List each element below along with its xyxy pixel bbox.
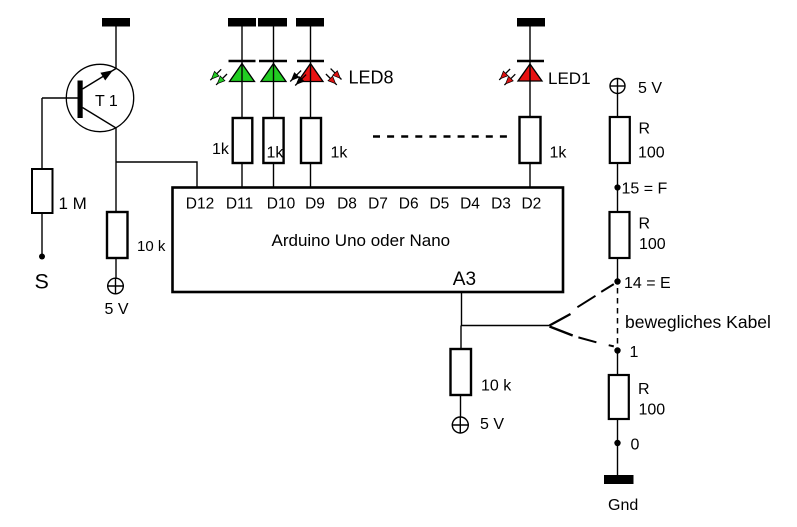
- svg-text:1k: 1k: [331, 145, 349, 162]
- wire base of T1: [42, 97, 78, 99]
- svg-text:D6: D6: [399, 196, 419, 213]
- light arrows LED D9 left (black): [290, 71, 306, 86]
- wire T1 collector to top ground: [115, 27, 117, 69]
- LED D2 (red, LED1): [517, 27, 544, 118]
- svg-text:5 V: 5 V: [480, 416, 504, 433]
- wire below 1M: [41, 213, 43, 254]
- wire branch to D12: [116, 162, 197, 188]
- resistor R 100 (bottom): [609, 375, 665, 419]
- svg-text:D11: D11: [226, 196, 253, 213]
- svg-text:D5: D5: [429, 196, 449, 213]
- ground bar above LED D9: [296, 18, 324, 27]
- wire T1 emitter down: [115, 128, 117, 212]
- resistor 1k (D11): [212, 118, 252, 163]
- LED D10 (green): [259, 27, 287, 119]
- LED D11 (green): [229, 27, 256, 119]
- svg-text:LED1: LED1: [548, 69, 591, 88]
- svg-text:D10: D10: [267, 196, 296, 213]
- dashed cable to node 14=E: [577, 284, 613, 307]
- svg-text:10 k: 10 k: [137, 238, 166, 255]
- wire base down to R 1M: [41, 98, 43, 169]
- light arrows LED D9 right (red): [326, 69, 342, 85]
- svg-text:1 M: 1 M: [59, 194, 87, 213]
- resistor R 100 (top): [610, 117, 665, 163]
- svg-text:100: 100: [639, 236, 666, 253]
- svg-text:100: 100: [638, 145, 665, 162]
- supply 5V left: [105, 278, 129, 319]
- light arrows LED D11: [210, 69, 227, 85]
- supply 5V middle: [452, 416, 505, 434]
- svg-text:R: R: [638, 381, 650, 398]
- resistor R 100 (middle): [610, 212, 666, 258]
- svg-text:R: R: [639, 216, 651, 233]
- ground bar above LED D11: [228, 18, 256, 27]
- svg-text:14 = E: 14 = E: [624, 275, 671, 292]
- svg-text:S: S: [35, 270, 49, 294]
- ground bar above LED D10: [258, 18, 287, 27]
- resistor 1k (D2): [520, 117, 568, 163]
- wire R1 to R2: [617, 163, 619, 212]
- svg-text:LED8: LED8: [349, 68, 394, 88]
- svg-text:R: R: [639, 121, 651, 138]
- ground bar above LED D2: [517, 18, 545, 27]
- wire 1k D10 to box: [273, 163, 275, 188]
- svg-text:A3: A3: [453, 269, 476, 290]
- wire 10k to 5V: [115, 258, 117, 279]
- svg-text:D12: D12: [186, 196, 214, 213]
- cable arrow head: [550, 314, 573, 336]
- svg-text:Gnd: Gnd: [608, 497, 638, 514]
- svg-text:10 k: 10 k: [481, 378, 512, 395]
- svg-text:100: 100: [639, 402, 666, 419]
- svg-text:1k: 1k: [267, 145, 285, 162]
- wire A3 down to 10k: [460, 326, 462, 350]
- svg-text:1k: 1k: [550, 145, 568, 162]
- wire 1k D2 to box: [529, 163, 531, 188]
- svg-text:1k: 1k: [212, 141, 230, 158]
- ground bar top left (above T1): [102, 18, 130, 27]
- LED D9 (red, LED8): [297, 27, 324, 119]
- svg-text:5 V: 5 V: [638, 80, 662, 97]
- svg-text:bewegliches Kabel: bewegliches Kabel: [625, 312, 771, 332]
- resistor 10k middle: [451, 349, 513, 395]
- wire A3 down: [461, 292, 463, 326]
- svg-text:0: 0: [631, 437, 640, 454]
- svg-text:1: 1: [630, 344, 639, 361]
- svg-text:15 = F: 15 = F: [622, 181, 668, 198]
- dashed cable to node 1: [578, 337, 613, 346]
- wire 5V to R1: [617, 94, 619, 118]
- wire 1k D11 to box: [241, 163, 243, 188]
- wire R3 to Gnd: [617, 419, 619, 475]
- wire 1k D9 to box: [310, 163, 312, 188]
- wire 10k to 5V middle: [460, 395, 462, 417]
- wire node 1 to R3: [617, 351, 619, 375]
- svg-text:D9: D9: [305, 196, 325, 213]
- wire R2 to node 14=E: [617, 258, 619, 282]
- dashed line between 1k resistors: [373, 135, 508, 137]
- node 1: [614, 347, 620, 353]
- svg-text:D4: D4: [460, 196, 480, 213]
- supply 5V right: [610, 78, 663, 97]
- resistor 1k (D9): [301, 118, 348, 163]
- node S dot: [39, 254, 45, 260]
- resistor 1k (D10): [263, 118, 284, 163]
- ground Gnd: [604, 475, 634, 484]
- dashed wire node 14=E to node 1: [617, 288, 619, 344]
- Arduino box U1: [173, 188, 564, 293]
- svg-text:D8: D8: [337, 196, 357, 213]
- resistor 1M: [32, 169, 87, 213]
- svg-text:D7: D7: [368, 196, 388, 213]
- wire A3 horizontal to cable arrow: [462, 325, 550, 327]
- svg-text:Arduino Uno oder Nano: Arduino Uno oder Nano: [271, 231, 450, 250]
- svg-text:D3: D3: [491, 196, 511, 213]
- node 0: [614, 440, 620, 446]
- node 15 = F: [614, 184, 620, 190]
- transistor T1: [66, 64, 133, 131]
- svg-text:T 1: T 1: [95, 93, 118, 110]
- svg-text:5 V: 5 V: [105, 301, 129, 318]
- svg-text:D2: D2: [521, 196, 541, 213]
- resistor 10k left: [107, 212, 166, 258]
- node 14 = E: [614, 278, 620, 284]
- light arrows LED D2 (red): [499, 69, 515, 85]
